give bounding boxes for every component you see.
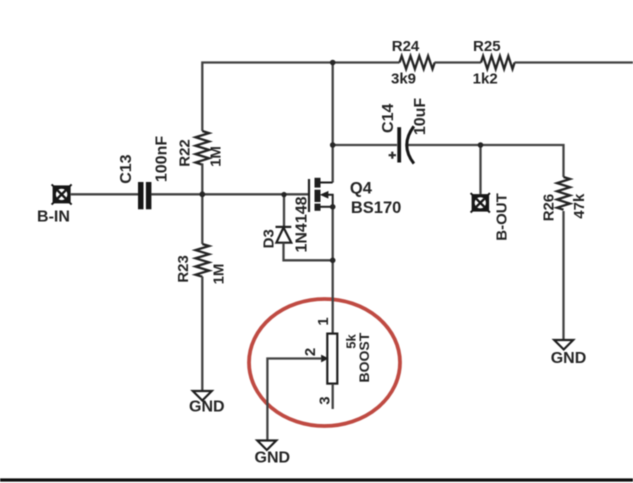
wire R22 bottom [201, 163, 203, 194]
wire pot pin3 [332, 384, 334, 409]
svg-text:Q4: Q4 [350, 180, 373, 198]
svg-text:1N4148: 1N4148 [294, 196, 311, 252]
svg-text:3: 3 [317, 396, 334, 404]
svg-text:R26: R26 [541, 194, 558, 222]
wire top rail left segment [202, 63, 399, 132]
svg-text:1: 1 [315, 317, 332, 325]
wire R26 to GND [562, 211, 564, 340]
svg-text:1M: 1M [210, 264, 227, 285]
svg-text:C13: C13 [118, 154, 135, 183]
wire R23 to GND [201, 277, 203, 392]
ground GND3 (R26) [554, 340, 573, 350]
svg-text:3k9: 3k9 [391, 71, 416, 88]
svg-text:B-IN: B-IN [37, 209, 70, 226]
wire C13 to Q4 gate [151, 193, 309, 195]
wire D3 top [283, 195, 285, 227]
resistor R24 [400, 56, 435, 69]
labels horizontal [37, 38, 586, 466]
wire C14 branch left [333, 144, 397, 146]
transistor Q4 [309, 178, 333, 212]
ground GND2 (pot wiper) [257, 441, 276, 451]
wire R23 top [201, 194, 203, 244]
resistor R22 [196, 131, 210, 165]
svg-text:GND: GND [255, 449, 291, 466]
svg-text:R25: R25 [473, 38, 501, 55]
svg-text:GND: GND [189, 399, 225, 416]
connector pad B-OUT [471, 193, 490, 212]
wire D3 bottom [284, 243, 333, 261]
diode D3 [276, 227, 292, 243]
wire source down to pot pin1 [332, 207, 334, 334]
wire rail R24-R25 [435, 61, 482, 63]
wire rail right to edge [515, 61, 633, 63]
red annotation circle [249, 299, 400, 426]
svg-text:R23: R23 [175, 255, 192, 283]
resistor R26 [557, 177, 570, 210]
ground GND1 (R23) [193, 391, 212, 401]
svg-text:BOOST: BOOST [356, 332, 372, 382]
svg-text:47k: 47k [571, 193, 588, 219]
svg-text:BS170: BS170 [351, 199, 401, 217]
svg-text:B-OUT: B-OUT [494, 193, 511, 241]
capacitor C14 [389, 126, 414, 163]
resistor R25 [481, 56, 515, 69]
svg-text:2: 2 [302, 348, 319, 356]
svg-text:100nF: 100nF [154, 136, 171, 182]
resistor R23 [196, 244, 210, 277]
wire B-IN to C13 [71, 193, 138, 195]
svg-text:1k2: 1k2 [473, 71, 498, 88]
svg-text:R22: R22 [176, 139, 193, 167]
svg-text:R24: R24 [392, 38, 420, 55]
connector pad B-IN [52, 184, 72, 204]
svg-text:GND: GND [551, 350, 587, 367]
svg-text:10uF: 10uF [412, 98, 429, 136]
svg-text:C14: C14 [380, 104, 397, 133]
bottom rule [0, 478, 633, 481]
wire pot wiper [267, 359, 321, 441]
labels rotated [118, 98, 588, 405]
wire C14 right to R26 corner [406, 145, 564, 177]
wire B-OUT drop [479, 145, 481, 194]
capacitor C13 [138, 182, 151, 209]
wire drain vertical [332, 63, 334, 183]
potentiometer BOOST 5k [322, 334, 338, 384]
svg-text:D3: D3 [261, 229, 278, 248]
svg-text:1M: 1M [207, 146, 224, 167]
junction dots [199, 60, 483, 263]
